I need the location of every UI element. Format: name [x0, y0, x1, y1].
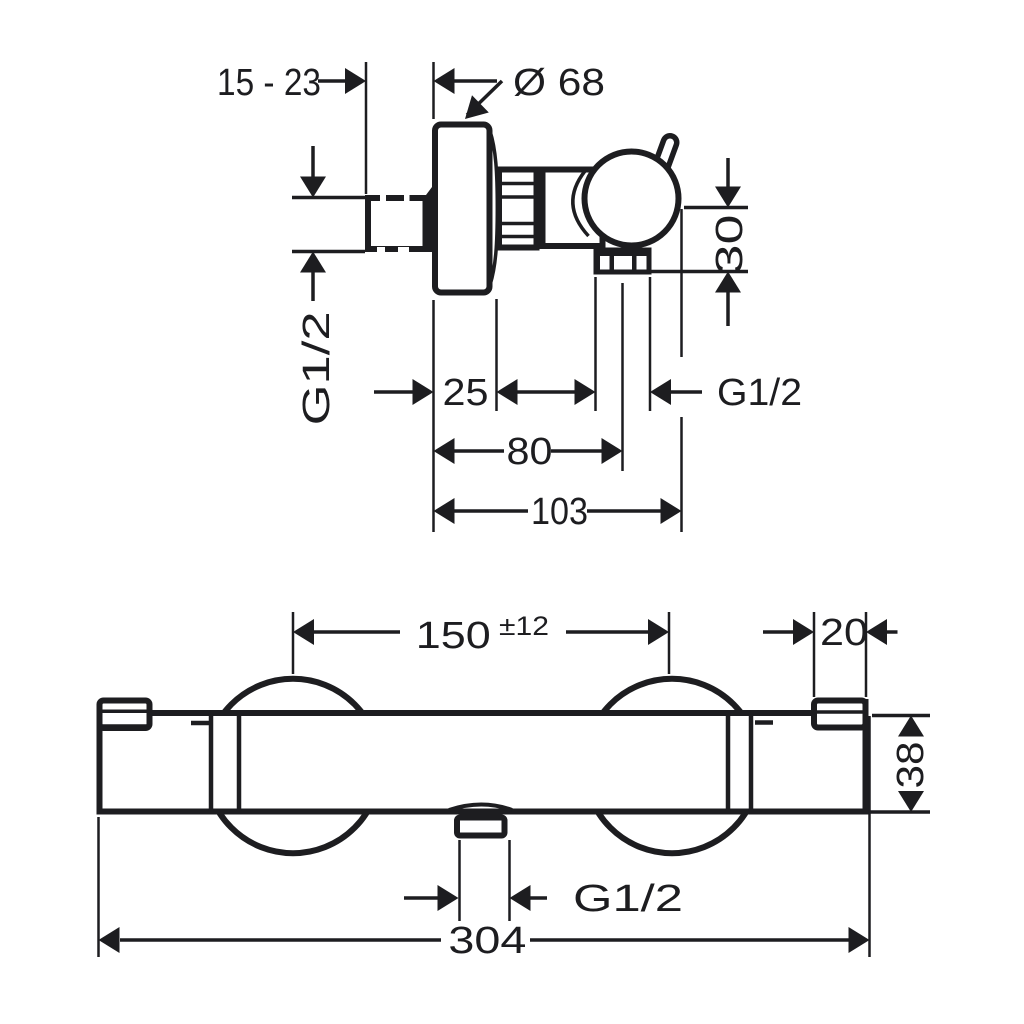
svg-text:15 - 23: 15 - 23: [217, 62, 321, 104]
svg-text:103: 103: [531, 491, 588, 533]
svg-text:150: 150: [416, 615, 491, 657]
svg-text:38: 38: [890, 742, 932, 789]
svg-text:304: 304: [448, 920, 526, 962]
svg-text:G1/2: G1/2: [573, 878, 683, 920]
svg-text:80: 80: [507, 431, 553, 473]
svg-text:25: 25: [443, 372, 489, 414]
svg-text:30: 30: [709, 215, 751, 275]
svg-text:20: 20: [820, 612, 868, 654]
svg-text:G1/2: G1/2: [296, 311, 338, 425]
svg-text:G1/2: G1/2: [717, 372, 802, 414]
svg-text:Ø 68: Ø 68: [513, 62, 605, 104]
svg-text:±12: ±12: [499, 611, 549, 641]
